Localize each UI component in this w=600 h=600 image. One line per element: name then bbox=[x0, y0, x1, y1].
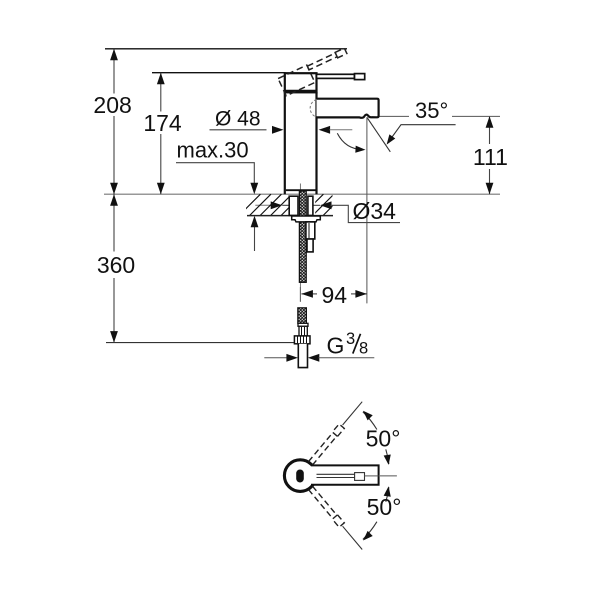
G3/8 connector nut bbox=[294, 336, 310, 344]
wire: vertical reference line from spout outlet bbox=[366, 117, 368, 303]
horseshoe washer bbox=[292, 216, 321, 222]
body base ring line bbox=[286, 189, 316, 191]
dim 174 vertical line bbox=[160, 73, 162, 195]
top view inner center line bbox=[365, 475, 379, 477]
deck bottom line bbox=[247, 215, 333, 217]
svg-text:35°: 35° bbox=[415, 98, 448, 123]
svg-text:94: 94 bbox=[322, 282, 348, 308]
top view lever pin bbox=[296, 470, 304, 483]
spacer sleeve left half bbox=[289, 196, 298, 215]
threaded mounting stud bbox=[299, 191, 306, 282]
svg-text:8: 8 bbox=[359, 340, 368, 358]
svg-text:3: 3 bbox=[346, 330, 355, 348]
wire: water stream incline line 35deg bbox=[367, 117, 390, 152]
cartridge housing bbox=[285, 73, 317, 92]
lower 50deg arc bbox=[363, 522, 377, 540]
spout body junction arc bbox=[310, 100, 316, 118]
svg-text:max.30: max.30 bbox=[177, 137, 249, 162]
svg-text:111: 111 bbox=[473, 144, 508, 170]
faucet body column bbox=[285, 92, 317, 194]
svg-text:174: 174 bbox=[143, 110, 182, 136]
dim 360 vertical line bbox=[113, 194, 115, 342]
upper ray solid extension bbox=[343, 402, 363, 425]
top view center line horizontal bbox=[380, 475, 397, 477]
spacer sleeve right half bbox=[308, 196, 313, 215]
top view spout bar bbox=[311, 465, 379, 484]
top view body circle bbox=[284, 460, 316, 492]
deck hatching right of hole bbox=[302, 194, 344, 215]
housing bottom thick joint line bbox=[284, 90, 317, 93]
top view lever tip outline bbox=[355, 473, 365, 481]
flow direction arc arrow bbox=[337, 133, 363, 149]
dim 111 vertical line bbox=[489, 116, 491, 194]
dim Ø34 arrows at deck hole bbox=[255, 204, 271, 206]
svg-text:Ø 48: Ø 48 bbox=[215, 107, 261, 130]
top view lever shaft lines bbox=[317, 474, 355, 477]
wire: bottom extension line for 360 dim bbox=[106, 342, 295, 344]
dashed lever swung down 50deg bbox=[309, 486, 345, 527]
hose nipple lower bbox=[307, 239, 313, 252]
wire: extension line for 174 dim bbox=[152, 72, 286, 74]
svg-text:G: G bbox=[327, 332, 345, 358]
node: countertop deck line bbox=[104, 193, 500, 195]
wire: 94 left extension (centerline stub) bbox=[299, 287, 301, 302]
dashed lever in raised position bbox=[278, 48, 352, 96]
svg-text:50°: 50° bbox=[366, 426, 401, 452]
deck hatching left of hole bbox=[239, 194, 302, 215]
svg-text:360: 360 bbox=[97, 252, 135, 278]
upper 50deg arc bbox=[363, 412, 377, 430]
dashed lever swung up 50deg bbox=[309, 424, 345, 465]
dim 94 horizontal line bbox=[301, 293, 367, 295]
dim 208 vertical line bbox=[113, 49, 115, 194]
faucet centerline bbox=[299, 184, 301, 302]
wire: top extension line for 208 dim bbox=[105, 48, 347, 50]
lower ray solid extension bbox=[343, 526, 363, 549]
dim G3/8 arrows at hose end bbox=[264, 357, 287, 359]
svg-text:208: 208 bbox=[93, 92, 131, 118]
wire: max.30 lower arrow below deck bbox=[254, 226, 256, 251]
svg-text:50°: 50° bbox=[367, 494, 402, 520]
lever handle horizontal bbox=[317, 74, 355, 78]
hose nipple upper bbox=[306, 222, 315, 239]
connector tube bbox=[298, 344, 307, 368]
hose ferrule bbox=[299, 326, 307, 336]
spout bbox=[317, 99, 379, 118]
hose collar bbox=[298, 323, 308, 326]
braided hose section bbox=[298, 308, 307, 324]
svg-text:Ø34: Ø34 bbox=[353, 198, 397, 224]
lever tip block bbox=[355, 74, 365, 80]
